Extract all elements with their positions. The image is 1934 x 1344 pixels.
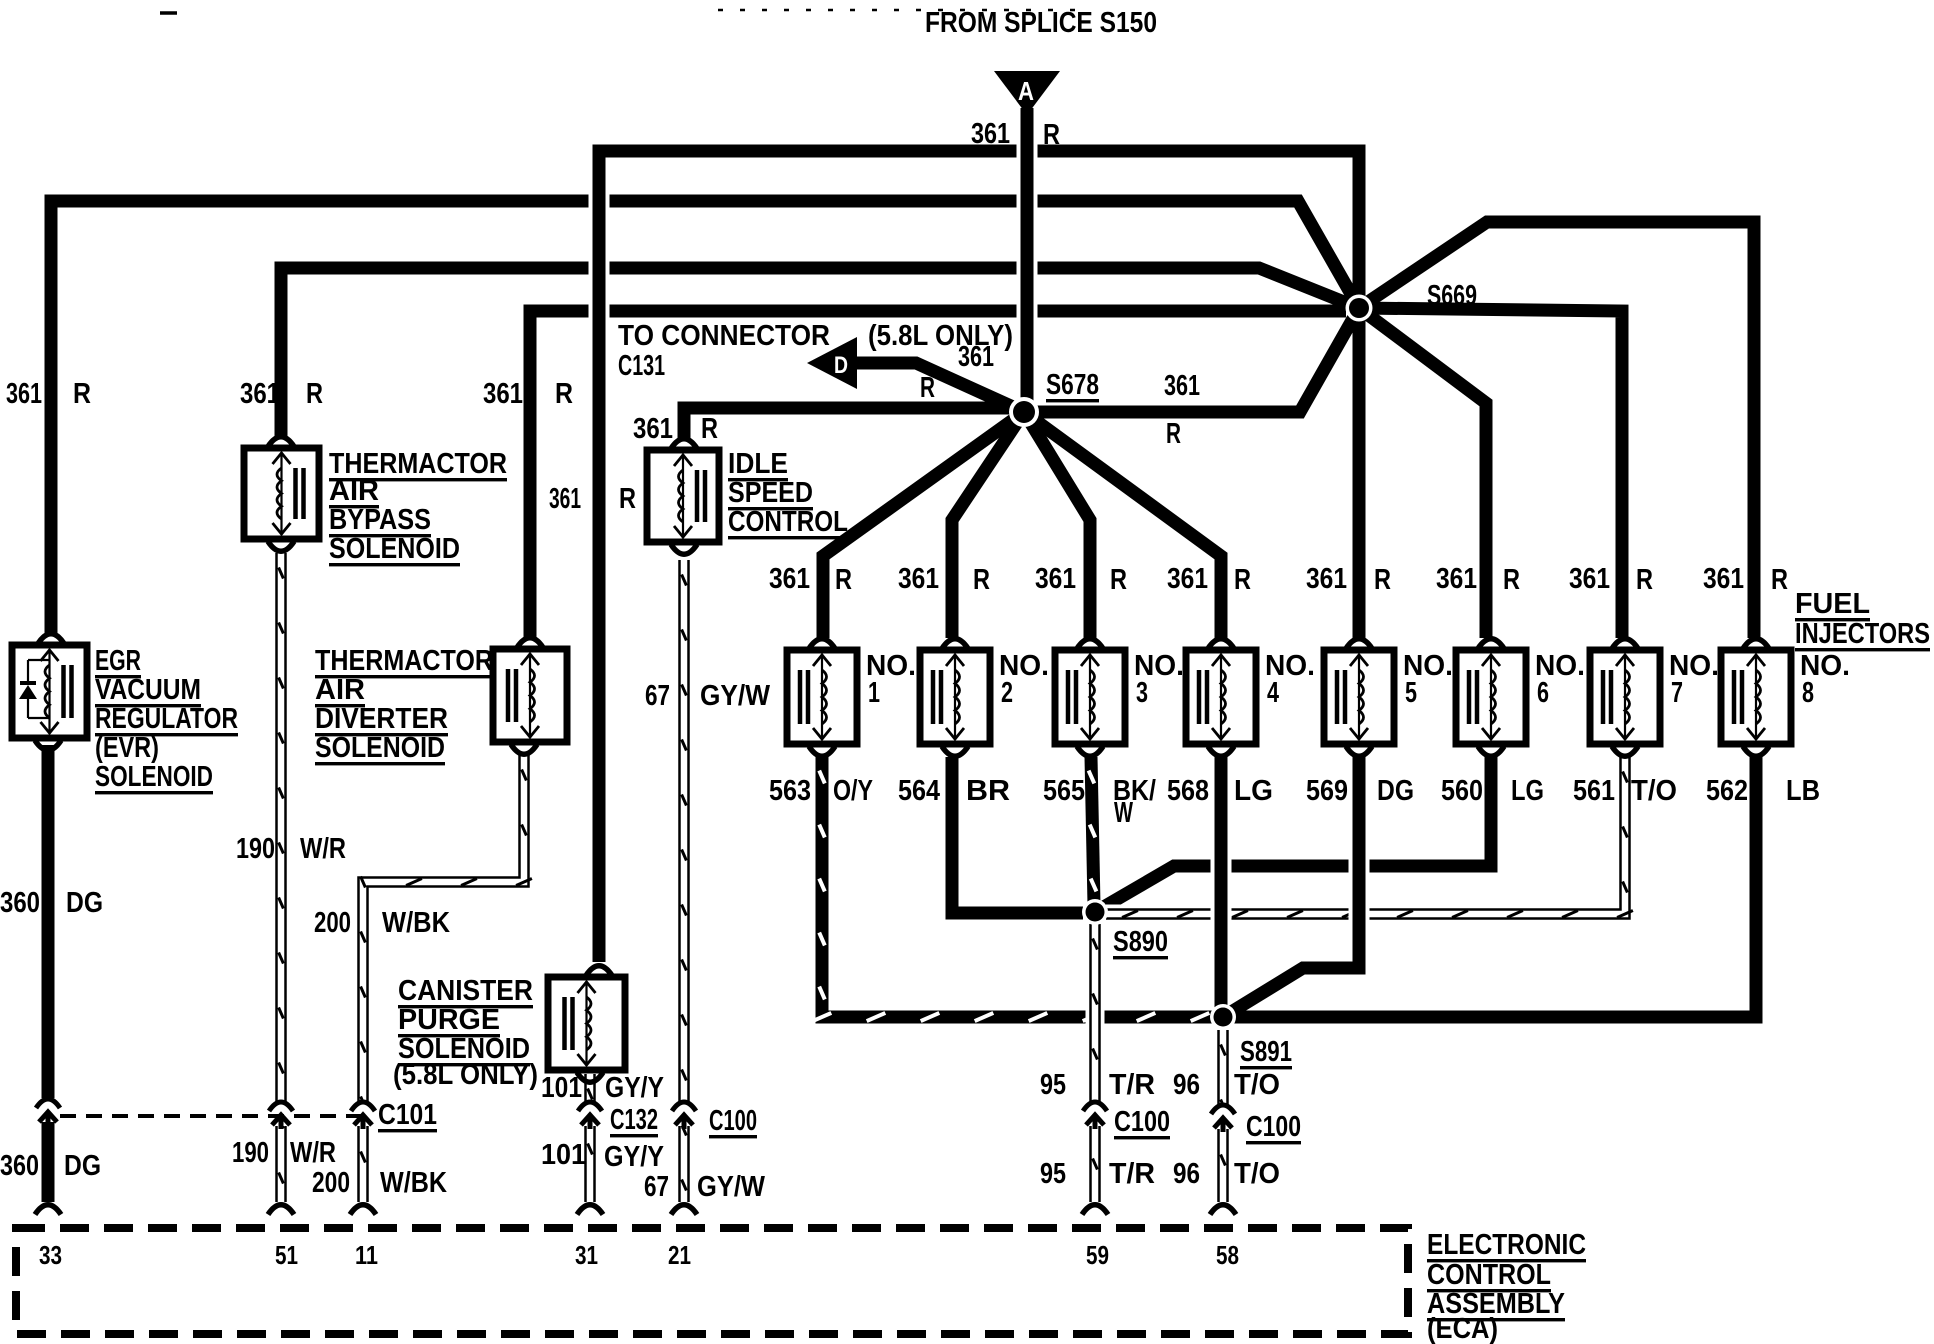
svg-text:R: R bbox=[619, 483, 636, 515]
svg-text:(5.8L ONLY): (5.8L ONLY) bbox=[868, 320, 1013, 352]
svg-text:58: 58 bbox=[1216, 1240, 1239, 1270]
svg-text:200: 200 bbox=[314, 907, 351, 939]
svg-text:C101: C101 bbox=[378, 1099, 437, 1131]
svg-text:D: D bbox=[834, 352, 848, 379]
svg-text:2: 2 bbox=[1001, 677, 1013, 709]
svg-text:R: R bbox=[1636, 564, 1653, 596]
svg-text:A: A bbox=[1018, 76, 1034, 106]
svg-text:SOLENOID: SOLENOID bbox=[315, 732, 445, 764]
svg-text:SOLENOID: SOLENOID bbox=[95, 761, 213, 793]
svg-text:LG: LG bbox=[1511, 775, 1544, 807]
svg-text:21: 21 bbox=[668, 1240, 691, 1270]
svg-text:T/O: T/O bbox=[1631, 775, 1677, 807]
svg-text:LB: LB bbox=[1786, 775, 1820, 807]
svg-text:200: 200 bbox=[312, 1167, 350, 1199]
svg-text:360: 360 bbox=[0, 1150, 39, 1182]
svg-text:(EVR): (EVR) bbox=[95, 732, 159, 764]
svg-text:101: 101 bbox=[541, 1139, 586, 1171]
svg-text:R: R bbox=[306, 378, 323, 410]
svg-text:59: 59 bbox=[1086, 1240, 1109, 1270]
svg-text:T/O: T/O bbox=[1234, 1158, 1280, 1190]
svg-text:568: 568 bbox=[1167, 775, 1209, 807]
svg-text:(5.8L ONLY): (5.8L ONLY) bbox=[393, 1059, 538, 1091]
svg-text:67: 67 bbox=[645, 680, 670, 712]
svg-text:190: 190 bbox=[232, 1137, 269, 1169]
svg-text:ELECTRONIC: ELECTRONIC bbox=[1427, 1229, 1586, 1261]
svg-text:361: 361 bbox=[1035, 563, 1076, 595]
svg-text:361: 361 bbox=[1306, 563, 1347, 595]
svg-text:THERMACTOR: THERMACTOR bbox=[315, 645, 493, 677]
svg-text:R: R bbox=[1503, 564, 1520, 596]
svg-text:561: 561 bbox=[1573, 775, 1615, 807]
svg-text:560: 560 bbox=[1441, 775, 1483, 807]
svg-text:CONTROL: CONTROL bbox=[728, 506, 848, 538]
svg-text:C132: C132 bbox=[610, 1104, 658, 1136]
svg-text:W: W bbox=[1114, 797, 1133, 829]
svg-text:R: R bbox=[835, 564, 852, 596]
svg-text:FUEL: FUEL bbox=[1795, 588, 1870, 620]
svg-text:R: R bbox=[1043, 119, 1060, 151]
svg-text:O/Y: O/Y bbox=[833, 775, 873, 807]
svg-text:PURGE: PURGE bbox=[398, 1004, 500, 1036]
svg-text:DG: DG bbox=[64, 1150, 101, 1182]
svg-text:361: 361 bbox=[1569, 563, 1610, 595]
svg-text:IDLE: IDLE bbox=[728, 448, 788, 480]
svg-text:190: 190 bbox=[236, 833, 275, 865]
svg-text:W/R: W/R bbox=[290, 1137, 336, 1169]
svg-text:R: R bbox=[1234, 564, 1251, 596]
svg-text:11: 11 bbox=[355, 1240, 378, 1270]
svg-text:VACUUM: VACUUM bbox=[95, 674, 201, 706]
svg-text:3: 3 bbox=[1136, 677, 1148, 709]
svg-text:AIR: AIR bbox=[315, 674, 365, 706]
svg-text:LG: LG bbox=[1234, 775, 1273, 807]
svg-text:96: 96 bbox=[1173, 1069, 1200, 1101]
svg-text:361: 361 bbox=[6, 378, 42, 410]
svg-text:BR: BR bbox=[966, 775, 1010, 807]
svg-text:5: 5 bbox=[1405, 677, 1417, 709]
svg-text:(ECA): (ECA) bbox=[1427, 1313, 1498, 1344]
svg-text:R: R bbox=[555, 378, 573, 410]
svg-text:R: R bbox=[920, 372, 935, 404]
svg-text:FROM SPLICE S150: FROM SPLICE S150 bbox=[925, 7, 1157, 39]
svg-text:361: 361 bbox=[240, 378, 280, 410]
svg-text:R: R bbox=[1771, 564, 1788, 596]
svg-text:C100: C100 bbox=[1114, 1106, 1170, 1138]
svg-text:SPEED: SPEED bbox=[728, 477, 813, 509]
svg-text:31: 31 bbox=[575, 1240, 598, 1270]
svg-text:GY/Y: GY/Y bbox=[604, 1141, 664, 1173]
svg-text:361: 361 bbox=[769, 563, 810, 595]
svg-text:C100: C100 bbox=[709, 1105, 757, 1137]
svg-text:DG: DG bbox=[66, 887, 103, 919]
svg-text:67: 67 bbox=[644, 1171, 669, 1203]
svg-text:564: 564 bbox=[898, 775, 940, 807]
svg-text:361: 361 bbox=[1164, 370, 1200, 402]
svg-text:CONTROL: CONTROL bbox=[1427, 1259, 1551, 1291]
svg-text:6: 6 bbox=[1537, 677, 1549, 709]
svg-text:CANISTER: CANISTER bbox=[398, 975, 533, 1007]
svg-text:361: 361 bbox=[633, 413, 673, 445]
svg-text:W/R: W/R bbox=[300, 833, 346, 865]
svg-text:4: 4 bbox=[1267, 677, 1279, 709]
svg-text:563: 563 bbox=[769, 775, 811, 807]
svg-text:GY/Y: GY/Y bbox=[605, 1072, 664, 1104]
svg-text:96: 96 bbox=[1173, 1158, 1200, 1190]
svg-text:R: R bbox=[1374, 564, 1391, 596]
svg-text:1: 1 bbox=[868, 677, 880, 709]
svg-text:W/BK: W/BK bbox=[380, 1167, 447, 1199]
svg-text:565: 565 bbox=[1043, 775, 1085, 807]
svg-text:361: 361 bbox=[898, 563, 939, 595]
svg-text:GY/W: GY/W bbox=[697, 1171, 766, 1203]
svg-text:GY/W: GY/W bbox=[700, 680, 771, 712]
svg-text:AIR: AIR bbox=[329, 475, 379, 507]
svg-text:R: R bbox=[1166, 418, 1181, 450]
svg-text:95: 95 bbox=[1040, 1069, 1066, 1101]
svg-text:R: R bbox=[973, 564, 990, 596]
svg-text:REGULATOR: REGULATOR bbox=[95, 703, 238, 735]
svg-text:C100: C100 bbox=[1246, 1111, 1301, 1143]
svg-text:S669: S669 bbox=[1427, 280, 1477, 312]
svg-text:562: 562 bbox=[1706, 775, 1748, 807]
svg-text:SOLENOID: SOLENOID bbox=[329, 533, 460, 565]
svg-text:R: R bbox=[73, 378, 91, 410]
svg-text:DG: DG bbox=[1377, 775, 1414, 807]
svg-text:361: 361 bbox=[971, 118, 1010, 150]
svg-text:DIVERTER: DIVERTER bbox=[315, 703, 448, 735]
svg-text:S890: S890 bbox=[1113, 926, 1168, 958]
svg-text:360: 360 bbox=[0, 887, 40, 919]
svg-text:361: 361 bbox=[1703, 563, 1744, 595]
svg-text:R: R bbox=[1110, 564, 1127, 596]
svg-text:33: 33 bbox=[39, 1240, 62, 1270]
svg-text:361: 361 bbox=[483, 378, 523, 410]
svg-text:T/R: T/R bbox=[1109, 1158, 1155, 1190]
svg-text:51: 51 bbox=[275, 1240, 298, 1270]
svg-text:569: 569 bbox=[1306, 775, 1348, 807]
svg-text:361: 361 bbox=[549, 483, 581, 515]
svg-text:T/R: T/R bbox=[1109, 1069, 1155, 1101]
svg-text:S678: S678 bbox=[1046, 369, 1099, 401]
svg-text:EGR: EGR bbox=[95, 645, 141, 677]
svg-text:7: 7 bbox=[1671, 677, 1683, 709]
svg-text:95: 95 bbox=[1040, 1158, 1066, 1190]
svg-text:INJECTORS: INJECTORS bbox=[1795, 618, 1930, 650]
svg-text:BYPASS: BYPASS bbox=[329, 504, 431, 536]
svg-text:S891: S891 bbox=[1240, 1036, 1292, 1068]
svg-text:TO CONNECTOR: TO CONNECTOR bbox=[618, 320, 830, 352]
svg-text:W/BK: W/BK bbox=[382, 907, 450, 939]
svg-text:T/O: T/O bbox=[1234, 1069, 1280, 1101]
svg-text:361: 361 bbox=[1436, 563, 1477, 595]
svg-text:C131: C131 bbox=[618, 350, 665, 382]
svg-text:361: 361 bbox=[1167, 563, 1208, 595]
svg-text:101: 101 bbox=[541, 1072, 582, 1104]
svg-text:R: R bbox=[701, 413, 718, 445]
svg-text:8: 8 bbox=[1802, 677, 1814, 709]
